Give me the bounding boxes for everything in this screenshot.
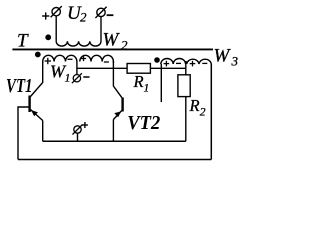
emitter rail (43, 140, 186, 142)
junction of tap (185, 61, 188, 64)
W3 left end wire stub down (160, 64, 162, 102)
transistor VT1 (30, 96, 43, 121)
svg-text:2: 2 (80, 10, 87, 25)
terminal stub to rail (77, 133, 79, 141)
VT1 emitter wire to rail (42, 121, 44, 142)
wire terminal to W2 left (55, 16, 57, 41)
wire centre tap to R1 (77, 67, 127, 69)
polarity dot of W1 (35, 52, 41, 58)
resistor R1 (127, 64, 150, 74)
terminal top-right minus (95, 7, 106, 18)
svg-text:T: T (17, 31, 29, 52)
W3 centre tap wire to R2 (185, 63, 187, 75)
wire R2 bottom to emitter rail (185, 97, 187, 142)
plus sign emitter terminal (82, 122, 88, 128)
terminal minus (centre tap) (72, 73, 82, 83)
svg-text:W: W (214, 46, 232, 67)
VT1 base wire to bottom rail (18, 107, 30, 160)
core line of transformer T (12, 48, 213, 50)
plus sign W1 left (45, 58, 51, 64)
svg-text:VT1: VT1 (6, 75, 33, 97)
bottom rail (18, 159, 211, 161)
svg-text:1: 1 (65, 71, 71, 85)
minus sign centre tap (83, 76, 89, 78)
winding W1 left half (43, 55, 77, 63)
winding W1 right half (80, 55, 114, 63)
winding W3 left half (161, 58, 186, 64)
minus sign W3 right (202, 62, 207, 64)
wire terminal to W2 right (100, 17, 102, 42)
plus sign top-left (42, 12, 49, 19)
winding W2 (56, 41, 101, 46)
svg-text:W: W (103, 30, 121, 51)
svg-text:1: 1 (144, 83, 150, 95)
plus sign W3 left (164, 61, 170, 67)
wire W1 right to VT2 collector (113, 62, 122, 98)
wire W1 left to VT1 collector (31, 62, 43, 97)
svg-text:R: R (133, 72, 144, 91)
svg-text:VT2: VT2 (127, 112, 160, 134)
svg-text:2: 2 (200, 106, 206, 118)
transistor VT2 (113, 98, 122, 120)
minus sign W1 left (68, 58, 73, 60)
plus sign W1 right (81, 56, 86, 61)
plus sign W3 right (190, 61, 196, 67)
terminal plus (emitter rail) (73, 125, 83, 135)
minus sign W3 left (176, 62, 181, 64)
svg-text:3: 3 (231, 54, 239, 69)
VT2 emitter wire to rail (112, 120, 114, 142)
svg-text:2: 2 (121, 38, 128, 53)
wire W3 right end down to bottom rail (210, 64, 212, 160)
minus sign W1 right (104, 61, 109, 63)
winding W3 right half (187, 59, 212, 64)
wire R1 to W3 centre tap (150, 67, 185, 69)
resistor R2 (178, 75, 190, 97)
minus sign top-right (107, 14, 114, 16)
svg-text:R: R (189, 96, 200, 115)
polarity dot of W3 (154, 57, 160, 63)
terminal top-left plus (51, 6, 62, 17)
polarity dot of W2 (45, 34, 51, 40)
W1 centre tap wire down (76, 62, 78, 75)
